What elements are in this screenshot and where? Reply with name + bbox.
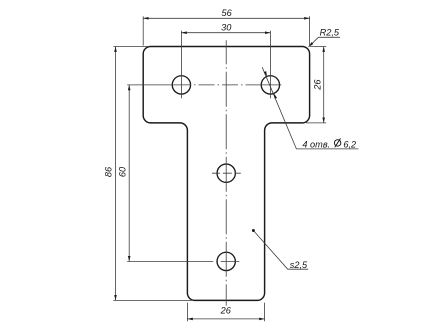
centerline horizontal through top holes — [127, 84, 281, 86]
svg-text:86: 86 — [104, 166, 114, 177]
hole middle — [217, 164, 235, 182]
svg-text:56: 56 — [221, 8, 232, 18]
centerline vertical stem axis — [225, 40, 227, 306]
dimension 86 left — [113, 47, 192, 301]
dot leader s2,5 — [252, 229, 255, 232]
svg-text:R2,5: R2,5 — [320, 28, 340, 38]
leader 4 holes dia 6,2 — [262, 67, 358, 149]
arrows dimension 60 — [128, 85, 131, 262]
arrows dimension 30 — [181, 31, 270, 34]
dimension 30 top — [181, 31, 270, 99]
svg-text:4 отв.: 4 отв. — [302, 140, 330, 150]
centerline horizontal through bottom hole — [127, 260, 239, 262]
part outline (T-shaped plate) — [143, 47, 309, 301]
leader s2,5 — [253, 231, 308, 270]
svg-text:60: 60 — [117, 166, 127, 177]
centerline horizontal through middle hole — [212, 172, 241, 174]
arrow leader R2,5 — [308, 42, 314, 48]
svg-text:26: 26 — [312, 79, 322, 91]
hole top-right — [261, 76, 279, 94]
arrows dimension 26 bottom — [187, 318, 264, 321]
svg-text:26: 26 — [220, 306, 232, 316]
arrows dimension 86 — [114, 47, 117, 301]
dimension 56 top — [143, 16, 309, 45]
dimension 26 right — [306, 47, 326, 123]
dimension 60 left — [128, 85, 130, 262]
arrows dimension 26 right — [322, 47, 325, 123]
svg-text:30: 30 — [221, 22, 232, 32]
arrows leader dia 6,2 on hole edge — [264, 71, 277, 99]
svg-text:s2,5: s2,5 — [290, 260, 308, 270]
arrows dimension 56 — [143, 17, 309, 20]
dimension 26 bottom — [187, 303, 264, 322]
hole top-left — [172, 76, 190, 94]
leader R2,5 — [308, 37, 340, 47]
hole bottom — [217, 252, 235, 270]
svg-text:6,2: 6,2 — [343, 140, 356, 150]
